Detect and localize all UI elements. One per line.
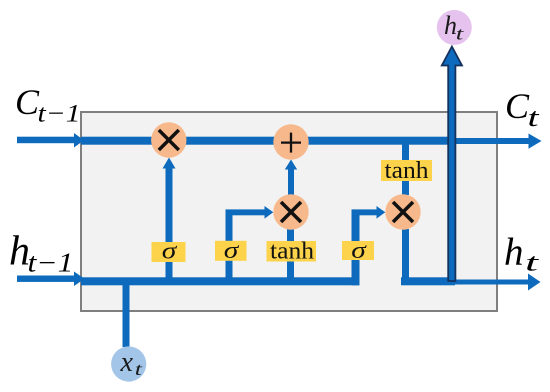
gate tanh1 <box>267 239 317 265</box>
gate sigma2 <box>215 238 247 264</box>
svg-text:σ: σ <box>162 239 178 265</box>
svg-text:C: C <box>15 82 40 122</box>
wire: C line down through tanh2 into X3 <box>402 144 409 195</box>
node h_t output circle <box>437 10 472 45</box>
svg-text:C: C <box>505 86 530 126</box>
wire: C_t exit arrow <box>452 134 542 149</box>
gate sigma3 <box>342 238 374 264</box>
wire: output-gate elbow (h line up through sigma3 to X3) <box>352 206 386 285</box>
wire: candidate riser (h line through tanh1 to X2) <box>287 229 294 285</box>
wire: input-gate elbow (sigma2 to X2) <box>226 206 274 285</box>
wire: cell state line (C) inside box <box>81 137 452 145</box>
gate sigma1 <box>152 239 186 265</box>
node x_t input circle <box>111 346 146 381</box>
node X3 (output multiply) <box>385 194 420 229</box>
label C_t-1 <box>15 82 81 128</box>
wire: X3 down to output corner <box>401 229 455 285</box>
wire: X2 to plus arrow <box>285 160 297 196</box>
wire: h_t-1 entry arrow <box>17 272 85 287</box>
wire: C_t-1 entry arrow <box>17 133 84 148</box>
svg-text:tanh: tanh <box>385 158 429 184</box>
svg-text:t−1: t−1 <box>38 101 81 128</box>
label C_t <box>505 86 540 132</box>
svg-text:σ: σ <box>224 238 240 264</box>
svg-text:x: x <box>120 347 134 378</box>
svg-text:t: t <box>528 103 540 132</box>
svg-text:σ: σ <box>351 238 367 264</box>
label h_t <box>504 231 540 277</box>
svg-text:h: h <box>504 231 524 274</box>
label h_t-1 <box>9 229 74 278</box>
node plus (cell update add) <box>273 124 308 159</box>
svg-text:t: t <box>525 250 540 277</box>
wire: forget-gate riser (sigma1 to X1) <box>163 158 176 286</box>
wire: x_t drop line <box>123 285 130 347</box>
svg-text:t−1: t−1 <box>28 248 74 278</box>
node X2 (input multiply) <box>273 194 308 229</box>
cell body box <box>81 112 497 311</box>
gate tanh2 <box>381 158 432 184</box>
svg-text:tanh: tanh <box>270 239 314 265</box>
wire: hidden state line (h) inside box <box>81 277 359 285</box>
node X1 (forget multiply) <box>151 122 186 157</box>
wire: h_t exit arrow <box>455 274 541 291</box>
wire: h_t vertical arrow to output circle <box>442 47 462 282</box>
